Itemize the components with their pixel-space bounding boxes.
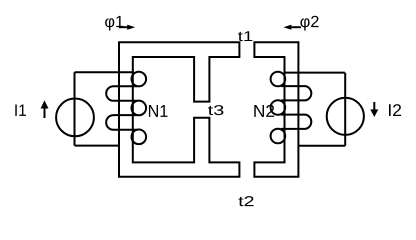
label I2 (389, 104, 401, 116)
inductor N2 turn 1 (271, 72, 286, 87)
inductor N2 turn 2 (271, 100, 286, 115)
label N2 (254, 105, 274, 117)
wire I2 source branch (344, 73, 346, 146)
label phi2 (300, 16, 318, 31)
inductor N2 back link 1 (281, 86, 311, 100)
arrow I1 direction (up) (41, 100, 49, 118)
core left piece (E-shaped half with window and split middle leg) (119, 42, 239, 177)
label I1 (15, 104, 26, 115)
core right piece (C-shape opening left) (254, 42, 298, 177)
wire N2 bottom lead (299, 145, 346, 147)
current source I2 (327, 98, 364, 135)
arrow I2 direction (down) (370, 102, 378, 117)
inductor N1 turn 1 (132, 72, 147, 87)
inductor N2 back link 2 (281, 115, 311, 129)
current source I1 (56, 99, 94, 137)
label phi1 (105, 16, 123, 31)
label t2 (239, 196, 254, 206)
label t1 (238, 31, 252, 41)
label t3 (208, 105, 223, 115)
inductor N1 turn 2 (132, 101, 147, 116)
inductor N1 back link 1 (106, 86, 137, 101)
arrow flux phi1 (right) (119, 25, 135, 30)
inductor N1 back link 2 (106, 115, 137, 130)
arrow flux phi2 (left) (283, 25, 301, 30)
wire N1 bottom lead (75, 145, 119, 147)
wire N2 top lead (284, 72, 345, 74)
inductor N2 turn 3 (271, 129, 286, 144)
wire I1 source branch (74, 72, 76, 145)
inductor N1 turn 3 (132, 130, 147, 145)
label N1 (149, 105, 168, 117)
wire N1 top lead (75, 71, 135, 73)
